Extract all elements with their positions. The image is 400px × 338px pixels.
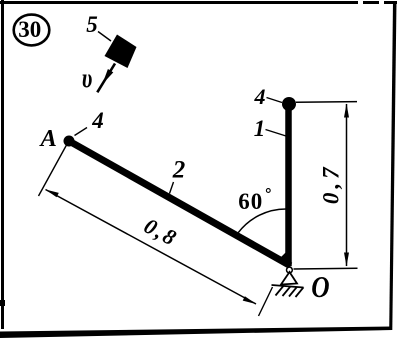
svg-text:0,7: 0,7: [319, 163, 344, 204]
svg-text:4: 4: [91, 108, 104, 133]
svg-text:2: 2: [172, 157, 186, 184]
svg-text:1: 1: [254, 116, 266, 141]
svg-text:4: 4: [254, 84, 266, 109]
svg-text:O: O: [311, 271, 329, 305]
svg-text:υ: υ: [82, 64, 93, 94]
svg-text:5: 5: [86, 12, 98, 37]
svg-text:30: 30: [18, 17, 41, 42]
svg-text:A: A: [39, 125, 57, 152]
svg-text:60: 60: [238, 189, 263, 214]
